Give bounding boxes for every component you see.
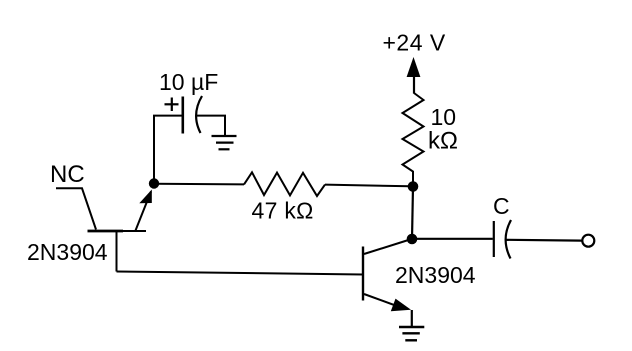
node C junction dot bbox=[407, 234, 418, 245]
svg-text:47 kΩ: 47 kΩ bbox=[252, 198, 314, 224]
output terminal (open circle) bbox=[582, 235, 594, 247]
svg-text:10: 10 bbox=[431, 104, 457, 130]
resistor R2 47 kOhm bbox=[244, 172, 325, 196]
svg-text:NC: NC bbox=[50, 161, 85, 188]
capacitor C2 flat plate bbox=[493, 221, 495, 257]
svg-text:10 µF: 10 µF bbox=[159, 69, 218, 95]
svg-text:2N3904: 2N3904 bbox=[27, 239, 108, 265]
transistor Q1 emitter with arrow to node A bbox=[136, 190, 152, 231]
wire capacitor C2 to output terminal bbox=[505, 239, 582, 242]
ground G1 bbox=[212, 136, 237, 149]
wire node A to resistor R2 bbox=[154, 183, 244, 186]
capacitor C2 curved plate bbox=[506, 220, 511, 259]
ground G2 bbox=[399, 327, 424, 340]
svg-text:2N3904: 2N3904 bbox=[395, 262, 476, 288]
transistor Q2 base bar bbox=[362, 247, 364, 301]
wire from node A to capacitor C1 left plate bbox=[154, 116, 183, 184]
capacitor C1 curved plate bbox=[196, 96, 202, 133]
transistor Q1 base lead down bbox=[116, 231, 118, 272]
capacitor C1 plus polarity mark bbox=[165, 98, 179, 112]
wire Q2 emitter to ground G2 bbox=[411, 310, 413, 327]
transistor Q1 base bar bbox=[88, 230, 124, 233]
transistor Q2 collector lead to node C bbox=[364, 240, 410, 255]
capacitor C1 flat plate bbox=[182, 97, 185, 134]
node B junction dot bbox=[408, 181, 419, 192]
transistor Q1 collector lead to NC bbox=[56, 188, 96, 229]
supply arrow to +24 V bbox=[407, 57, 421, 94]
wire node B to node C bbox=[412, 187, 413, 240]
svg-text:C: C bbox=[493, 193, 510, 219]
wire from capacitor C1 curved plate to ground G1 bbox=[197, 116, 226, 136]
wire resistor R2 to node B bbox=[325, 185, 410, 187]
wire Q1 base to Q2 base bbox=[117, 272, 364, 275]
svg-text:+24 V: +24 V bbox=[383, 30, 446, 56]
resistor R1 10 kOhm bbox=[403, 93, 424, 182]
node A junction dot bbox=[149, 178, 159, 188]
svg-text:kΩ: kΩ bbox=[428, 128, 458, 155]
wire node C to capacitor C2 bbox=[412, 238, 493, 240]
transistor Q2 emitter with arrow bbox=[364, 294, 411, 311]
